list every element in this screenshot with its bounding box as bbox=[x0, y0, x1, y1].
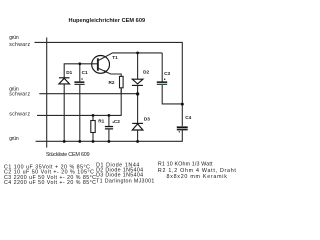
svg-text:R2 1,2 Ohm 4 Watt, Draht: R2 1,2 Ohm 4 Watt, Draht bbox=[158, 168, 237, 174]
svg-text:R2: R2 bbox=[109, 80, 115, 85]
svg-text:Hupengleichrichter CEM 609: Hupengleichrichter CEM 609 bbox=[69, 18, 146, 24]
svg-text:C4 2200 uF 50 Volt +- 20 % 85°: C4 2200 uF 50 Volt +- 20 % 85°C bbox=[4, 180, 96, 186]
svg-text:D2: D2 bbox=[143, 70, 149, 75]
svg-text:C3: C3 bbox=[164, 71, 170, 76]
svg-text:schwarz: schwarz bbox=[9, 42, 30, 48]
svg-text:Stückliste CEM 609: Stückliste CEM 609 bbox=[46, 152, 90, 158]
svg-text:D1: D1 bbox=[66, 70, 72, 75]
svg-text:schwarz: schwarz bbox=[9, 112, 30, 118]
svg-text:C2: C2 bbox=[114, 119, 120, 124]
svg-text:R1: R1 bbox=[98, 118, 104, 123]
svg-text:C4: C4 bbox=[185, 115, 191, 120]
svg-text:C1: C1 bbox=[82, 70, 88, 75]
svg-text:grün: grün bbox=[9, 136, 19, 142]
svg-text:D3: D3 bbox=[144, 117, 150, 122]
svg-text:8x8x20 mm Keramik: 8x8x20 mm Keramik bbox=[167, 174, 228, 180]
svg-text:T1: T1 bbox=[112, 55, 118, 60]
svg-text:grün: grün bbox=[9, 35, 19, 41]
svg-text:schwarz: schwarz bbox=[9, 92, 30, 98]
svg-text:R1 10 KOhm 1/3 Watt: R1 10 KOhm 1/3 Watt bbox=[158, 162, 213, 168]
svg-text:T1 Darlington MJ3001: T1 Darlington MJ3001 bbox=[96, 178, 154, 184]
